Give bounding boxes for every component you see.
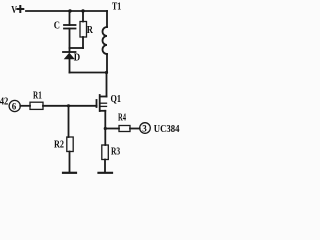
wire coil bottom to junction (106, 54, 108, 73)
svg-text:UC384: UC384 (154, 124, 180, 135)
wire right branch upper (106, 11, 108, 27)
transformer T1 (103, 2, 122, 55)
wire source to R3 (104, 129, 106, 146)
svg-text:R3: R3 (111, 147, 120, 158)
wire gate (43, 105, 97, 107)
diode D (63, 52, 81, 73)
svg-text:D: D (74, 53, 81, 64)
resistor R1 (30, 90, 43, 109)
wire circle to R1 (20, 105, 30, 107)
node junction gate/R2 (67, 104, 70, 107)
node junction coil/diode (105, 71, 108, 74)
svg-text:R4: R4 (118, 113, 126, 124)
transistor Q1 (97, 94, 122, 111)
svg-text:42: 42 (0, 97, 8, 108)
svg-text:6: 6 (12, 102, 17, 112)
svg-text:R: R (87, 25, 94, 36)
capacitor C (54, 9, 76, 52)
svg-text:R2: R2 (54, 140, 64, 151)
wire R4 to pin 3 (130, 128, 140, 130)
node output pin 3 UC38 (140, 123, 180, 135)
node input pin 6 (0, 97, 20, 112)
wire R2 drop (68, 106, 70, 137)
resistor R (70, 9, 94, 48)
svg-text:3: 3 (142, 124, 147, 134)
svg-text:V: V (11, 5, 17, 16)
svg-text:R1: R1 (33, 90, 42, 101)
wire drain vertical (106, 73, 108, 97)
wire R3 to ground (104, 160, 106, 173)
svg-text:T1: T1 (112, 2, 121, 13)
wire source vertical (104, 111, 106, 129)
ground right (99, 172, 113, 174)
ground left (63, 172, 76, 174)
resistor R4 (118, 113, 130, 132)
node V+ (11, 5, 23, 16)
node junction source/R4 (104, 127, 107, 130)
svg-text:Q1: Q1 (111, 94, 122, 105)
wire top rail (26, 10, 107, 12)
wire diode to coil junction (70, 72, 107, 74)
wire to R4 (105, 128, 119, 130)
wire R2 to ground (69, 152, 71, 173)
resistor R2 (54, 137, 73, 152)
svg-text:C: C (54, 21, 60, 32)
resistor R3 (102, 145, 120, 160)
